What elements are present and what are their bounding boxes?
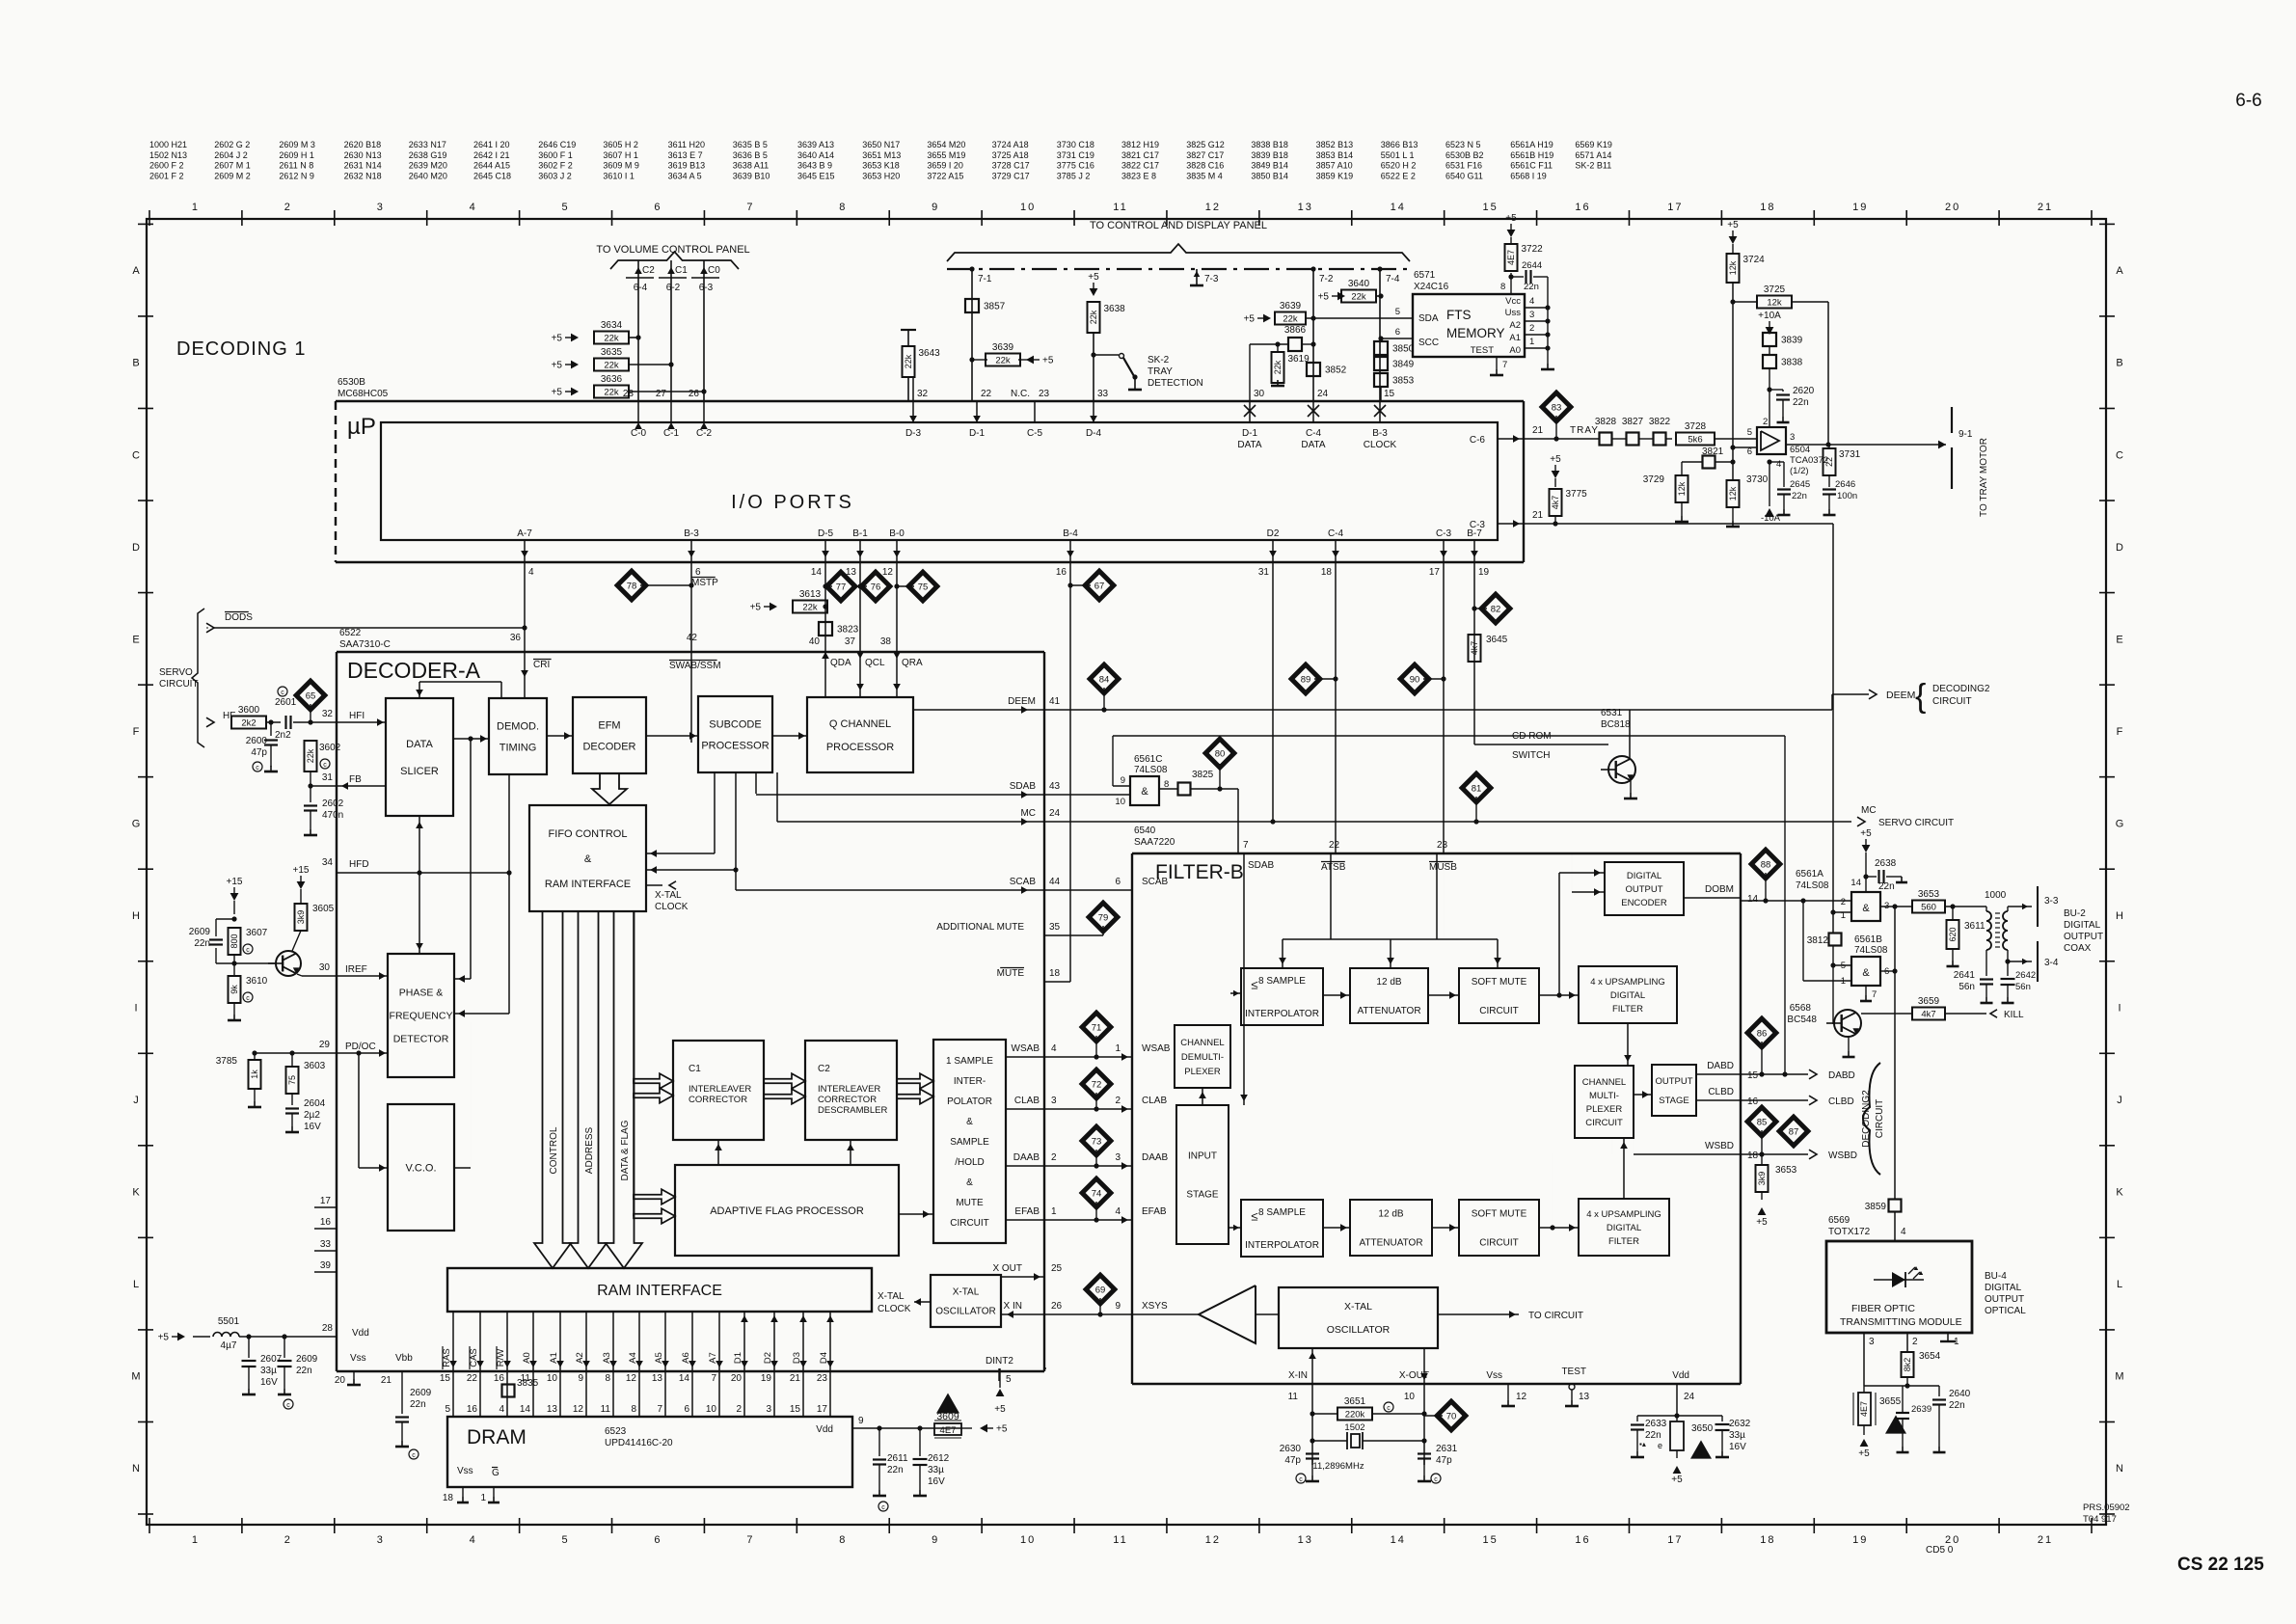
svg-text:6561A: 6561A [1796, 869, 1823, 880]
svg-text:DABD: DABD [1828, 1070, 1855, 1081]
svg-text:5: 5 [562, 1534, 570, 1546]
svg-text:16: 16 [320, 1217, 332, 1228]
svg-text:OSCILLATOR: OSCILLATOR [1327, 1324, 1391, 1336]
svg-text:X IN: X IN [1004, 1301, 1022, 1312]
svg-text:3602 F 2: 3602 F 2 [538, 161, 573, 171]
svg-text:10: 10 [1404, 1392, 1416, 1402]
svg-text:7-1: 7-1 [978, 274, 992, 284]
svg-text:15: 15 [1482, 1534, 1498, 1546]
svg-text:11: 11 [1113, 1534, 1127, 1546]
svg-text:12: 12 [882, 567, 894, 578]
svg-text:FTS: FTS [1446, 308, 1472, 322]
svg-text:CHANNEL: CHANNEL [1582, 1077, 1626, 1088]
svg-text:MUTE: MUTE [956, 1198, 984, 1208]
svg-text:3639: 3639 [1280, 301, 1302, 311]
svg-text:DECODING2: DECODING2 [1861, 1090, 1872, 1148]
svg-text:BU-2: BU-2 [2064, 908, 2086, 919]
svg-text:DECODING2: DECODING2 [1932, 684, 1990, 694]
svg-text:10: 10 [1020, 202, 1036, 213]
svg-text:14: 14 [520, 1404, 531, 1415]
svg-text:C-2: C-2 [696, 428, 713, 439]
svg-text:3: 3 [377, 1534, 385, 1546]
svg-text:K: K [2116, 1187, 2123, 1199]
svg-text:13: 13 [1298, 1534, 1313, 1546]
svg-text:2633: 2633 [1645, 1419, 1667, 1429]
svg-text:TIMING: TIMING [500, 742, 537, 753]
svg-text:2640: 2640 [1949, 1389, 1971, 1399]
svg-text:B-4: B-4 [1063, 528, 1078, 539]
svg-text:X-TAL: X-TAL [878, 1291, 905, 1302]
svg-text:23: 23 [1437, 840, 1448, 851]
svg-text:10: 10 [1020, 1534, 1036, 1546]
svg-text:22k: 22k [1351, 292, 1366, 303]
svg-text:3-4: 3-4 [2044, 958, 2059, 968]
svg-text:3838 B18: 3838 B18 [1251, 140, 1288, 149]
svg-text:2645: 2645 [1790, 479, 1810, 490]
svg-text:3653 K18: 3653 K18 [862, 161, 900, 171]
svg-text:2607 M 1: 2607 M 1 [214, 161, 251, 171]
svg-text:3634 A 5: 3634 A 5 [668, 171, 702, 180]
svg-text:CIRCUIT: CIRCUIT [1479, 1238, 1519, 1249]
svg-text:3825: 3825 [1192, 770, 1214, 780]
svg-text:CLBD: CLBD [1708, 1087, 1734, 1097]
svg-text:2611 N 8: 2611 N 8 [279, 161, 313, 171]
svg-text:23: 23 [1039, 389, 1050, 399]
svg-text:3650 N17: 3650 N17 [862, 140, 900, 149]
svg-text:2641: 2641 [1954, 970, 1976, 981]
svg-text:2642 I 21: 2642 I 21 [473, 150, 510, 160]
svg-text:CORRECTOR: CORRECTOR [818, 1095, 877, 1105]
svg-text:+5: +5 [1318, 292, 1330, 303]
svg-text:MC: MC [1861, 805, 1877, 816]
svg-text:+5: +5 [1858, 1448, 1870, 1459]
svg-text:DECODING 1: DECODING 1 [176, 338, 306, 360]
svg-text:C-1: C-1 [663, 428, 680, 439]
svg-text:FILTER: FILTER [1608, 1236, 1639, 1247]
svg-text:DAAB: DAAB [1013, 1152, 1040, 1163]
svg-text:2602: 2602 [322, 798, 344, 809]
svg-text:4 x UPSAMPLING: 4 x UPSAMPLING [1586, 1209, 1661, 1220]
svg-text:22n: 22n [1645, 1430, 1661, 1441]
svg-text:3613 E 7: 3613 E 7 [668, 150, 703, 160]
svg-text:220k: 220k [1345, 1410, 1365, 1421]
svg-text:FREQUENCY: FREQUENCY [390, 1011, 453, 1022]
svg-text:DOBM: DOBM [1705, 884, 1734, 895]
svg-text:83: 83 [1552, 403, 1562, 414]
svg-text:56n: 56n [2015, 982, 2031, 992]
svg-text:3600 F 1: 3600 F 1 [538, 150, 573, 160]
svg-text:3827 C17: 3827 C17 [1186, 150, 1224, 160]
svg-text:16V: 16V [1729, 1442, 1746, 1452]
svg-text:X-OUT: X-OUT [1399, 1370, 1429, 1381]
svg-text:2633 N17: 2633 N17 [409, 140, 446, 149]
svg-text:19: 19 [1852, 202, 1868, 213]
svg-text:SERVO CIRCUIT: SERVO CIRCUIT [1878, 818, 1954, 828]
svg-text:≤: ≤ [1251, 1209, 1257, 1224]
svg-text:22: 22 [1824, 457, 1834, 467]
svg-text:&: & [1141, 786, 1148, 798]
svg-text:22k: 22k [1283, 314, 1298, 325]
svg-text:6-4: 6-4 [634, 283, 648, 293]
svg-text:14: 14 [1850, 878, 1861, 888]
svg-text:3849 B14: 3849 B14 [1251, 161, 1288, 171]
svg-text:5: 5 [1747, 427, 1752, 438]
svg-text:C1: C1 [675, 265, 688, 276]
svg-text:ADDRESS: ADDRESS [584, 1127, 595, 1175]
svg-text:2630 N13: 2630 N13 [344, 150, 382, 160]
svg-text:75: 75 [918, 582, 929, 593]
svg-text:24: 24 [1049, 808, 1061, 819]
svg-text:3653: 3653 [1918, 889, 1940, 900]
svg-text:3639: 3639 [992, 342, 1014, 353]
svg-text:ATSB: ATSB [1321, 862, 1346, 873]
svg-text:13: 13 [1579, 1392, 1590, 1402]
svg-text:3: 3 [766, 1404, 771, 1415]
svg-text:33µ: 33µ [928, 1465, 944, 1475]
svg-text:I: I [2118, 1003, 2120, 1015]
svg-text:C2: C2 [818, 1064, 830, 1074]
svg-text:44: 44 [1049, 877, 1061, 887]
svg-text:FIFO CONTROL: FIFO CONTROL [549, 828, 628, 840]
svg-text:3640 A14: 3640 A14 [797, 150, 834, 160]
svg-text:DATA: DATA [1237, 440, 1262, 450]
svg-text:C: C [2116, 449, 2123, 461]
svg-text:76: 76 [871, 582, 881, 593]
svg-text:K: K [132, 1187, 140, 1199]
svg-text:CD ROM: CD ROM [1512, 731, 1552, 742]
svg-text:2631: 2631 [1436, 1444, 1458, 1454]
svg-text:D2: D2 [763, 1352, 773, 1364]
svg-text:D3: D3 [792, 1352, 802, 1364]
svg-text:1: 1 [192, 202, 200, 213]
svg-text:77: 77 [836, 582, 847, 593]
svg-text:15: 15 [440, 1373, 451, 1384]
svg-text:1: 1 [480, 1493, 486, 1503]
svg-text:16V: 16V [304, 1122, 321, 1132]
svg-text:470n: 470n [322, 810, 343, 821]
svg-text:6522 E 2: 6522 E 2 [1381, 171, 1416, 180]
svg-text:11: 11 [601, 1404, 611, 1415]
svg-text:c: c [281, 690, 284, 696]
svg-text:SLICER: SLICER [400, 766, 439, 777]
svg-text:1502 N13: 1502 N13 [149, 150, 187, 160]
svg-text:MC: MC [1020, 808, 1036, 819]
svg-text:DATA & FLAG: DATA & FLAG [620, 1120, 631, 1180]
svg-text:89: 89 [1301, 675, 1311, 686]
svg-text:FILTER-B: FILTER-B [1155, 861, 1244, 883]
svg-text:OPTICAL: OPTICAL [1985, 1306, 2026, 1316]
svg-text:10: 10 [706, 1404, 717, 1415]
svg-text:2609 M 2: 2609 M 2 [214, 171, 251, 180]
svg-text:7-4: 7-4 [1386, 274, 1400, 284]
svg-text:75: 75 [287, 1075, 297, 1085]
svg-text:7: 7 [746, 202, 754, 213]
svg-text:6: 6 [654, 1534, 662, 1546]
svg-text:A3: A3 [602, 1352, 612, 1364]
svg-text:2639 M20: 2639 M20 [409, 161, 447, 171]
svg-text:3850: 3850 [1392, 344, 1415, 355]
svg-text:3823 E 8: 3823 E 8 [1121, 171, 1156, 180]
svg-text:2602 G 2: 2602 G 2 [214, 140, 250, 149]
svg-text:+15: +15 [293, 865, 310, 876]
svg-text:I: I [134, 1003, 137, 1015]
svg-text:17: 17 [1667, 202, 1683, 213]
svg-text:N.C.: N.C. [1011, 389, 1030, 399]
svg-text:84: 84 [1099, 675, 1110, 686]
svg-text:c: c [323, 762, 327, 769]
svg-text:6569 K19: 6569 K19 [1575, 140, 1612, 149]
svg-text:3: 3 [1869, 1337, 1875, 1347]
svg-text:22k: 22k [306, 748, 315, 763]
svg-text:F: F [133, 726, 140, 738]
svg-text:B: B [2116, 358, 2122, 369]
svg-text:22: 22 [981, 389, 992, 399]
svg-text:69: 69 [1095, 1286, 1106, 1296]
svg-text:3: 3 [1529, 310, 1534, 320]
svg-text:DATA: DATA [1301, 440, 1326, 450]
svg-text:2638: 2638 [1875, 858, 1897, 869]
svg-text:6530B: 6530B [338, 377, 365, 388]
svg-text:DIGITAL: DIGITAL [1607, 1223, 1641, 1233]
svg-text:3852: 3852 [1325, 365, 1347, 376]
svg-text:9: 9 [932, 202, 939, 213]
svg-text:2: 2 [1841, 897, 1846, 907]
svg-text:2642: 2642 [2015, 970, 2036, 981]
svg-text:INTERLEAVER: INTERLEAVER [689, 1084, 751, 1095]
svg-text:20: 20 [731, 1373, 743, 1384]
svg-text:32: 32 [322, 709, 334, 719]
svg-text:3: 3 [1790, 432, 1795, 443]
svg-text:65: 65 [306, 691, 316, 702]
svg-text:RAM INTERFACE: RAM INTERFACE [597, 1283, 722, 1299]
svg-text:8: 8 [631, 1404, 636, 1415]
svg-text:&: & [966, 1117, 973, 1127]
svg-text:+5: +5 [1727, 220, 1739, 230]
svg-text:2644: 2644 [1522, 260, 1542, 271]
svg-text:SAA7220: SAA7220 [1134, 837, 1175, 848]
svg-text:88: 88 [1761, 860, 1771, 871]
svg-text:DABD: DABD [1707, 1061, 1734, 1071]
svg-text:12: 12 [626, 1373, 637, 1384]
svg-text:D-3: D-3 [905, 428, 922, 439]
svg-text:73: 73 [1092, 1137, 1102, 1148]
svg-text:3835 M 4: 3835 M 4 [1186, 171, 1223, 180]
svg-text:5: 5 [445, 1404, 450, 1415]
svg-text:!: ! [1894, 1421, 1897, 1434]
svg-text:EFM: EFM [598, 719, 620, 731]
svg-text:DAAB: DAAB [1142, 1152, 1169, 1163]
svg-text:D4: D4 [819, 1352, 829, 1364]
svg-text:3635 B 5: 3635 B 5 [733, 140, 768, 149]
svg-text:40: 40 [809, 636, 821, 647]
svg-text:2: 2 [1529, 323, 1534, 334]
svg-text:INTERPOLATOR: INTERPOLATOR [1245, 1009, 1319, 1019]
svg-text:42: 42 [687, 633, 698, 643]
svg-text:30: 30 [1254, 389, 1265, 399]
svg-text:81: 81 [1472, 784, 1482, 795]
svg-text:13: 13 [652, 1373, 663, 1384]
svg-text:BC548: BC548 [1787, 1015, 1817, 1025]
svg-text:13: 13 [1298, 202, 1313, 213]
svg-text:F: F [2117, 726, 2123, 738]
svg-text:MSTP: MSTP [691, 578, 718, 588]
svg-text:7: 7 [1872, 989, 1877, 1000]
svg-text:SERVO: SERVO [159, 667, 193, 678]
svg-text:3729 C17: 3729 C17 [992, 171, 1030, 180]
svg-text:3611: 3611 [1964, 921, 1985, 932]
svg-text:A0: A0 [1509, 345, 1521, 356]
svg-text:3636 B 5: 3636 B 5 [733, 150, 768, 160]
svg-text:27: 27 [656, 389, 667, 399]
svg-text:TEST: TEST [1471, 345, 1494, 356]
svg-text:G: G [132, 818, 141, 829]
svg-text:37: 37 [845, 636, 856, 647]
svg-text:MUTE: MUTE [997, 968, 1025, 979]
svg-text:47p: 47p [1284, 1455, 1301, 1466]
svg-text:+5: +5 [750, 603, 762, 613]
svg-text:6522: 6522 [339, 628, 362, 638]
svg-text:6568: 6568 [1790, 1003, 1812, 1014]
svg-text:3728 C17: 3728 C17 [992, 161, 1030, 171]
svg-text:3651 M13: 3651 M13 [862, 150, 901, 160]
svg-text:c: c [1299, 1476, 1303, 1483]
svg-text:SUBCODE: SUBCODE [709, 718, 761, 730]
svg-text:3812: 3812 [1807, 935, 1829, 946]
svg-text:SDAB: SDAB [1010, 781, 1037, 792]
svg-text:4: 4 [470, 1534, 477, 1546]
svg-text:2601: 2601 [275, 697, 297, 708]
svg-text:17: 17 [1667, 1534, 1683, 1546]
svg-text:620: 620 [1948, 927, 1958, 941]
svg-text:CLOCK: CLOCK [1364, 440, 1397, 450]
svg-text:3839 B18: 3839 B18 [1251, 150, 1288, 160]
svg-text:A4: A4 [628, 1352, 638, 1364]
svg-text:STAGE: STAGE [1659, 1096, 1689, 1106]
svg-text:13: 13 [547, 1404, 558, 1415]
svg-text:6: 6 [684, 1404, 689, 1415]
svg-text:A1: A1 [549, 1352, 559, 1364]
svg-text:c: c [881, 1504, 885, 1511]
svg-text:C1: C1 [689, 1064, 701, 1074]
svg-text:21: 21 [1532, 510, 1544, 521]
svg-text:24: 24 [1317, 389, 1329, 399]
svg-text:2620: 2620 [1793, 386, 1815, 396]
svg-text:87: 87 [1789, 1127, 1799, 1138]
svg-text:31: 31 [1258, 567, 1270, 578]
svg-text:14: 14 [679, 1373, 690, 1384]
svg-text:2601 F 2: 2601 F 2 [149, 171, 184, 180]
svg-text:3638 A11: 3638 A11 [733, 161, 769, 171]
svg-text:47p: 47p [1436, 1455, 1452, 1466]
svg-text:E: E [2116, 634, 2122, 645]
svg-text:3825 G12: 3825 G12 [1186, 140, 1225, 149]
svg-text:4: 4 [499, 1404, 504, 1415]
svg-text:26: 26 [689, 389, 700, 399]
svg-text:WSBD: WSBD [1828, 1150, 1857, 1161]
svg-text:D: D [132, 542, 140, 554]
svg-text:12: 12 [573, 1404, 584, 1415]
svg-text:DRAM: DRAM [467, 1426, 527, 1448]
svg-text:23: 23 [817, 1373, 828, 1384]
svg-text:QCL: QCL [865, 658, 885, 668]
svg-text:6531: 6531 [1601, 708, 1623, 718]
svg-text:6530B B2: 6530B B2 [1445, 150, 1484, 160]
svg-text:c: c [246, 947, 250, 954]
svg-text:3725: 3725 [1764, 284, 1786, 295]
svg-text:3: 3 [377, 202, 385, 213]
svg-text:3724: 3724 [1743, 255, 1766, 265]
svg-text:+5: +5 [1088, 272, 1099, 283]
svg-text:17: 17 [817, 1404, 828, 1415]
svg-text:D-5: D-5 [818, 528, 834, 539]
svg-text:3609 M 9: 3609 M 9 [603, 161, 639, 171]
svg-text:A7: A7 [708, 1352, 718, 1364]
svg-text:16: 16 [494, 1373, 505, 1384]
svg-text:SOFT MUTE: SOFT MUTE [1472, 977, 1527, 988]
svg-text:16: 16 [1575, 202, 1590, 213]
svg-text:PHASE &: PHASE & [399, 988, 444, 999]
svg-text:CIRCUIT: CIRCUIT [1479, 1006, 1519, 1016]
svg-text:DEMULTI-: DEMULTI- [1181, 1052, 1224, 1063]
svg-text:21: 21 [2038, 1534, 2053, 1546]
svg-text:31: 31 [322, 772, 334, 783]
svg-text:22n: 22n [1793, 397, 1809, 408]
svg-text:4E7: 4E7 [1859, 1401, 1869, 1417]
svg-text:C-4: C-4 [1328, 528, 1344, 539]
svg-text:2604: 2604 [304, 1098, 326, 1109]
svg-text:35: 35 [1049, 922, 1061, 933]
svg-text:J: J [2117, 1095, 2122, 1106]
svg-text:SCAB: SCAB [1142, 877, 1169, 887]
svg-text:&: & [1862, 967, 1870, 979]
svg-text:3823: 3823 [837, 625, 859, 636]
svg-text:38: 38 [880, 636, 892, 647]
svg-text:3731 C19: 3731 C19 [1057, 150, 1094, 160]
svg-text:3852 B13: 3852 B13 [1316, 140, 1354, 149]
svg-text:1: 1 [1051, 1206, 1057, 1217]
svg-text:D2: D2 [1267, 528, 1280, 539]
svg-text:78: 78 [627, 582, 637, 592]
svg-text:X-TAL: X-TAL [953, 1287, 980, 1298]
svg-text:12 dB: 12 dB [1378, 1209, 1403, 1220]
svg-text:2µ2: 2µ2 [304, 1110, 320, 1121]
svg-text:22n: 22n [1949, 1400, 1965, 1411]
svg-text:2: 2 [1763, 417, 1768, 427]
svg-text:7-3: 7-3 [1204, 274, 1219, 284]
svg-text:Vdd: Vdd [816, 1424, 833, 1435]
svg-text:90: 90 [1410, 675, 1420, 686]
svg-text:D-1: D-1 [969, 428, 986, 439]
svg-text:2641 I 20: 2641 I 20 [473, 140, 510, 149]
svg-text:3859: 3859 [1865, 1202, 1887, 1212]
svg-text:16V: 16V [260, 1377, 278, 1388]
svg-text:43: 43 [1049, 781, 1061, 792]
svg-text:CIRCUIT: CIRCUIT [159, 679, 199, 690]
svg-text:3613: 3613 [799, 589, 822, 600]
svg-text:3731: 3731 [1839, 449, 1861, 460]
svg-text:3659 I 20: 3659 I 20 [927, 161, 963, 171]
svg-text:+5: +5 [994, 1404, 1006, 1415]
svg-text:6520 H 2: 6520 H 2 [1381, 161, 1417, 171]
svg-text:2639: 2639 [1911, 1404, 1931, 1415]
svg-text:1000 H21: 1000 H21 [149, 140, 187, 149]
svg-text:4E7: 4E7 [940, 1425, 957, 1436]
svg-text:1 SAMPLE: 1 SAMPLE [946, 1056, 993, 1067]
svg-text:17: 17 [320, 1196, 332, 1206]
svg-text:56n: 56n [1958, 982, 1975, 992]
svg-text:D-1: D-1 [1242, 428, 1258, 439]
svg-text:3850 B14: 3850 B14 [1251, 171, 1288, 180]
